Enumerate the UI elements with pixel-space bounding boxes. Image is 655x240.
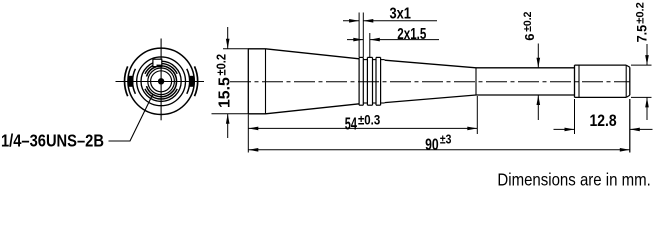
dim 54 left extension line (shared with 90) xyxy=(247,115,249,153)
circle flange step xyxy=(137,57,186,106)
dim 7.5 top extension line xyxy=(631,64,652,66)
dim text 3x1 xyxy=(390,6,412,23)
body cylinder bottom edge xyxy=(248,113,265,115)
body left face xyxy=(247,49,249,114)
dim 3x1 ext line B xyxy=(362,13,364,58)
tip corner chamfer top xyxy=(626,65,630,67)
inner bore circle xyxy=(148,68,175,95)
dim text 90±3 xyxy=(425,136,439,154)
dim 3x1 right arrow and tail xyxy=(363,19,437,23)
dim 15.5 line top with arrow xyxy=(226,27,230,49)
dim 7.5 top arrow xyxy=(645,44,649,65)
shaft bottom edge xyxy=(476,94,575,96)
thread major dia arc bottom part xyxy=(145,89,177,99)
svg-text:15.5: 15.5 xyxy=(217,77,234,108)
dim text 54±0.3 xyxy=(345,115,358,134)
ring 2 xyxy=(367,57,372,105)
svg-text:7.5: 7.5 xyxy=(634,24,650,42)
dim 6 top arrow xyxy=(537,44,541,68)
lug tab left (black) xyxy=(128,76,133,87)
taper2/shaft junction edge xyxy=(475,68,477,95)
side relief arc right xyxy=(187,69,190,94)
svg-text:±0.3: ±0.3 xyxy=(358,113,380,128)
side relief arc left xyxy=(133,69,136,94)
main centerline (dash-dot) xyxy=(230,81,630,83)
dim 2x1.5 left arrow xyxy=(347,38,363,42)
dim 90 right extension line xyxy=(629,99,631,153)
svg-text:90: 90 xyxy=(425,136,439,154)
dim 3x1 ext line A xyxy=(358,13,360,58)
tip right face xyxy=(629,67,631,95)
taper1 top edge xyxy=(266,49,360,59)
svg-text:±0.2: ±0.2 xyxy=(214,54,229,76)
thread callout text 1/4-36UNS-2B xyxy=(1,131,104,150)
inner pin circle xyxy=(151,71,172,92)
footnote: Dimensions are in mm. xyxy=(497,169,650,190)
lug bump arc left xyxy=(125,66,128,96)
groove 2 surface xyxy=(373,59,377,61)
keyway notch at top xyxy=(153,59,162,66)
dim 12.8 left extension line xyxy=(574,99,576,134)
svg-text:±0.2: ±0.2 xyxy=(522,12,534,32)
dim 12.8 left arrow xyxy=(554,128,575,132)
circle recess xyxy=(141,61,181,101)
svg-text:1/4–36UNS–2B: 1/4–36UNS–2B xyxy=(1,131,104,150)
svg-text:2x1.5: 2x1.5 xyxy=(397,25,426,42)
svg-text:3x1: 3x1 xyxy=(390,6,412,23)
ring 3 xyxy=(376,57,381,105)
svg-text:54: 54 xyxy=(345,115,358,134)
collar surface after ring 3 xyxy=(381,59,385,61)
dim text 15.5±0.2 (vertical) xyxy=(217,77,234,108)
dim text 2x1.5 xyxy=(397,25,426,42)
groove 1 surface xyxy=(363,59,367,61)
dim 7.5 bottom extension line xyxy=(631,96,652,98)
svg-text:12.8: 12.8 xyxy=(590,112,618,130)
dim 3x1 left arrow xyxy=(343,19,359,23)
svg-text:Dimensions are in mm.: Dimensions are in mm. xyxy=(497,169,650,190)
lug tab right (black) xyxy=(189,76,194,87)
dim 2x1.5 right arrow and tail xyxy=(370,38,439,42)
taper1 bottom edge xyxy=(266,104,360,114)
outer circle (body O.D.) xyxy=(128,48,194,114)
shaft top edge xyxy=(476,67,575,69)
taper2 top edge xyxy=(385,60,476,68)
thread callout leader line xyxy=(109,95,153,142)
dim 7.5 bottom arrow xyxy=(645,97,649,120)
center contact dot xyxy=(158,78,164,84)
thread minor dia circle xyxy=(147,66,177,97)
tip corner chamfer bottom xyxy=(626,95,630,97)
dim 2x1.5 ext line C xyxy=(369,33,371,57)
ring 1 xyxy=(359,57,363,105)
thread major dia 3/4 arc 1/4-36UNS-2B xyxy=(145,64,177,74)
svg-text:±0.2: ±0.2 xyxy=(634,2,646,24)
dim text 12.8 xyxy=(590,112,618,130)
tip top edge xyxy=(575,64,627,66)
dim 90 line with arrows xyxy=(248,148,630,152)
lug bump arc right xyxy=(195,66,198,96)
dim text 6±0.2 (vertical) xyxy=(522,33,537,40)
svg-text:±3: ±3 xyxy=(440,133,452,147)
dim 12.8 right arrow xyxy=(630,128,653,132)
tip left face xyxy=(574,65,576,97)
tip chamfer edge left xyxy=(578,65,580,97)
taper2 bottom edge xyxy=(385,95,476,103)
centerline vertical of front view xyxy=(160,39,162,121)
dim 15.5 bottom extension line xyxy=(212,113,250,115)
dim 15.5 top extension line xyxy=(223,48,249,50)
dim 6 bottom arrow xyxy=(537,95,541,120)
centerline horizontal of front view xyxy=(116,81,205,83)
keyway notch dark bottom tick xyxy=(157,65,163,67)
tip chamfer edge right xyxy=(625,65,627,97)
tip bottom edge xyxy=(575,96,627,98)
dim 15.5 line bottom with arrow xyxy=(226,114,230,138)
dim 54 line with arrows xyxy=(248,127,477,131)
body cylinder top edge xyxy=(248,48,265,50)
dim 54 right extension line xyxy=(476,96,478,134)
svg-text:6: 6 xyxy=(522,33,537,40)
dim 12.8 right extension line xyxy=(629,99,631,153)
dim text 7.5±0.2 (vertical) xyxy=(634,24,650,42)
cone start edge xyxy=(265,49,267,114)
